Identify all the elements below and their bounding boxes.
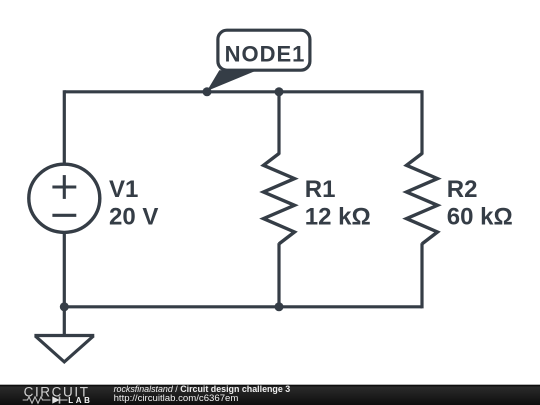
junction dot R1 bottom [275,302,284,311]
wire left branch top (rail to V1) [63,90,66,164]
wire R2 top lead [420,90,423,154]
CircuitLab logo diode [52,396,60,403]
svg-text:60 kΩ: 60 kΩ [447,204,513,231]
ground [34,336,94,362]
node NODE1 callout bubble [218,30,310,70]
svg-text:20 V: 20 V [109,204,158,231]
wire bottom rail [64,305,422,308]
svg-text:LAB: LAB [68,396,92,405]
node NODE1 tail [207,70,257,91]
junction dot R1 top [275,87,284,96]
svg-text:V1: V1 [109,176,138,203]
wire R1 top lead [277,92,280,155]
CircuitLab logo waveform [23,396,68,403]
resistor R2 [407,154,438,244]
svg-text:12 kΩ: 12 kΩ [305,204,371,231]
junction dot bottom left [60,302,69,311]
wire ground stub [63,307,66,337]
svg-text:NODE1: NODE1 [225,42,306,67]
svg-text:R2: R2 [447,176,478,203]
wire left branch bottom (V1 to bottom rail) [63,233,66,309]
V1 circle body [29,164,100,232]
ground top bar [34,334,94,337]
svg-text:R1: R1 [305,176,336,203]
wire top rail [64,90,422,93]
V1 plus sign [52,185,76,188]
wire R1 bottom lead [277,243,280,307]
svg-text:http://circuitlab.com/c6367em: http://circuitlab.com/c6367em [114,393,239,404]
junction dot node1 on top rail [203,87,212,96]
voltage source V1 [29,164,100,232]
ground triangle [35,336,93,362]
resistor R1 [264,154,295,244]
wire R2 bottom lead [420,243,423,308]
V1 minus sign [52,214,76,217]
